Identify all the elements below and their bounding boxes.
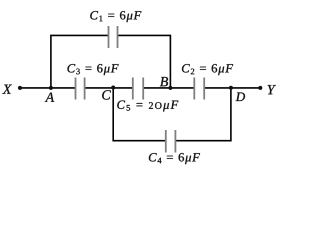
terminal dot at Y (258, 86, 262, 90)
node label B (160, 77, 168, 86)
node label C (102, 90, 111, 99)
wire: main line C3 right plate to C5 left plate (85, 87, 133, 89)
node C junction dot (111, 86, 115, 90)
node B junction dot (169, 86, 173, 90)
wire: top branch right, C1 right plate across and down to node B (118, 35, 170, 88)
wire: bottom branch right, C4 right plate across and up to node D (176, 88, 231, 141)
wire: bottom branch left, node C down and across to C4 left plate (113, 88, 165, 141)
node D junction dot (229, 86, 233, 90)
label: C3 = 6uF (68, 64, 119, 75)
node label Y (268, 85, 276, 94)
wire: main line from X terminal to C3 left plate (20, 87, 75, 89)
terminal dot at X (18, 86, 22, 90)
node A junction dot (49, 86, 53, 90)
wire: main line C5 right plate to C2 left plate (144, 87, 195, 89)
wire: top branch left, node A up and across to C1 left plate (51, 35, 108, 88)
label: C2 = 6uF (182, 64, 233, 75)
label: C4 = 6uF (149, 153, 200, 164)
capacitor C1 (109, 26, 118, 48)
node label X (2, 85, 12, 94)
node label A (45, 93, 54, 102)
label: C1 = 6uF (90, 11, 141, 22)
wire: main line C2 right plate to Y terminal (205, 87, 261, 89)
capacitor C4 (166, 130, 176, 153)
capacitor C5 (133, 78, 143, 100)
capacitor C2 (194, 78, 204, 100)
label: C5 = 20uF (117, 101, 178, 112)
capacitor C3 (76, 78, 85, 100)
node label D (236, 93, 245, 102)
